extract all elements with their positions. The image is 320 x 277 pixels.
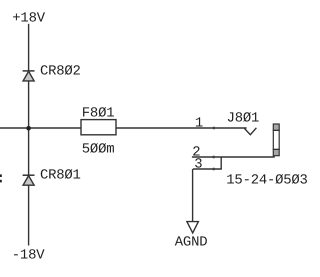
clipped text at left edge <box>0 174 2 177</box>
fuse F801 <box>81 120 116 135</box>
svg-text:CR8Ø2: CR8Ø2 <box>40 64 81 80</box>
pin 3 wire and riser to pin 2 net <box>193 157 221 169</box>
svg-text:1: 1 <box>195 116 203 132</box>
wire down to AGND <box>192 169 194 222</box>
svg-text:F8Ø1: F8Ø1 <box>82 105 115 121</box>
connector body top cap <box>273 124 279 130</box>
svg-text:CR8Ø1: CR8Ø1 <box>40 167 81 183</box>
connector body bottom cap <box>273 149 279 155</box>
diode CR802 <box>23 71 35 81</box>
connector J801 pin 1 chevron <box>244 128 256 135</box>
svg-text:15-24-Ø5Ø3: 15-24-Ø5Ø3 <box>226 172 307 188</box>
wire horizontal main net <box>0 127 247 129</box>
pin 1 end dot <box>213 127 216 130</box>
svg-text:AGND: AGND <box>175 235 208 251</box>
pin 2 end dot <box>212 156 215 159</box>
pin 2 wire to connector body <box>192 155 274 157</box>
diode CR801 <box>23 175 35 185</box>
wire from node down to -18V <box>28 128 30 246</box>
pin 3 end dot <box>212 168 215 171</box>
svg-text:-18V: -18V <box>12 248 45 264</box>
junction node <box>26 126 31 131</box>
svg-text:5ØØm: 5ØØm <box>82 141 115 157</box>
svg-text:J8Ø1: J8Ø1 <box>227 110 260 126</box>
wire from +18V down to node <box>28 24 30 128</box>
svg-text:3: 3 <box>194 157 202 173</box>
ground symbol AGND <box>187 222 199 233</box>
connector body middle <box>273 130 279 149</box>
